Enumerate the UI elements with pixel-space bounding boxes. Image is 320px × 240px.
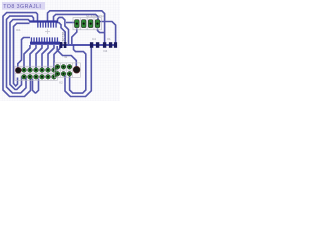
wire spiral T4 inner xyxy=(14,23,30,86)
wire outer right U xyxy=(64,46,92,97)
connector JP2 outline box xyxy=(73,18,101,30)
header JP1 outline box xyxy=(15,66,57,80)
header JP1 pads bottom row xyxy=(22,74,57,79)
wire bus right horizontal xyxy=(60,44,116,46)
wire IC right tr2 xyxy=(56,23,65,45)
capacitor C2 pads xyxy=(103,42,117,48)
wire small U loop xyxy=(33,79,39,94)
svg-text:D4: D4 xyxy=(104,49,108,53)
wire fan 5 xyxy=(48,45,54,68)
wire top bus inner xyxy=(54,14,99,20)
title text highlight box xyxy=(2,2,45,10)
connector X2 outline box xyxy=(54,63,80,77)
svg-text:X2: X2 xyxy=(59,81,63,85)
wire spiral T3 xyxy=(10,20,30,90)
connector JP2 pads xyxy=(75,20,100,28)
svg-text:8: 8 xyxy=(64,56,68,58)
wire right corner to bus end xyxy=(99,22,116,45)
svg-text:6.30720: 6.30720 xyxy=(62,32,66,45)
wire inner right U xyxy=(70,45,86,94)
wire IC right tr1 xyxy=(58,17,69,44)
header JP1 pads top row xyxy=(22,68,57,73)
black pad of X2 xyxy=(73,66,80,73)
wire thick IC bottom bar xyxy=(30,42,60,45)
wire fan 4 xyxy=(42,45,48,68)
wire spiral T2 xyxy=(7,16,34,93)
wire corner to black pad xyxy=(18,38,30,70)
svg-text:TO8 3GRAJLI: TO8 3GRAJLI xyxy=(3,4,41,10)
IC U1 bottom pads comb xyxy=(31,37,58,42)
connector X2 pads bottom row xyxy=(55,71,72,76)
svg-text:S1-4A0-TZ12: S1-4A0-TZ12 xyxy=(86,14,104,18)
pin1 black pad of JP1 xyxy=(15,67,21,73)
wire pad1 left entry xyxy=(66,22,75,24)
IC origin cross xyxy=(45,29,50,34)
wire jog pad4 down xyxy=(98,29,105,33)
svg-text:IC1: IC1 xyxy=(16,28,21,32)
capacitor C1 pads xyxy=(90,42,99,48)
svg-text:X1: X1 xyxy=(107,37,111,41)
wire spiral T1 outer xyxy=(3,13,38,97)
wire fan 3 xyxy=(36,45,42,68)
resistor R1 pads (small smd near IC) xyxy=(60,42,67,48)
wire bar to X2 black pad xyxy=(57,46,76,66)
svg-text:C4: C4 xyxy=(92,37,96,41)
connector X2 pads top row xyxy=(55,64,72,69)
wire pad1 down to bus xyxy=(72,29,77,45)
wire fan 1 xyxy=(24,45,30,68)
wire top bus outer xyxy=(48,11,105,43)
IC U1 top pads comb xyxy=(37,22,57,27)
wire fan 2 xyxy=(30,45,36,68)
wire fan 6 xyxy=(54,45,60,68)
IC top bar xyxy=(30,20,59,22)
